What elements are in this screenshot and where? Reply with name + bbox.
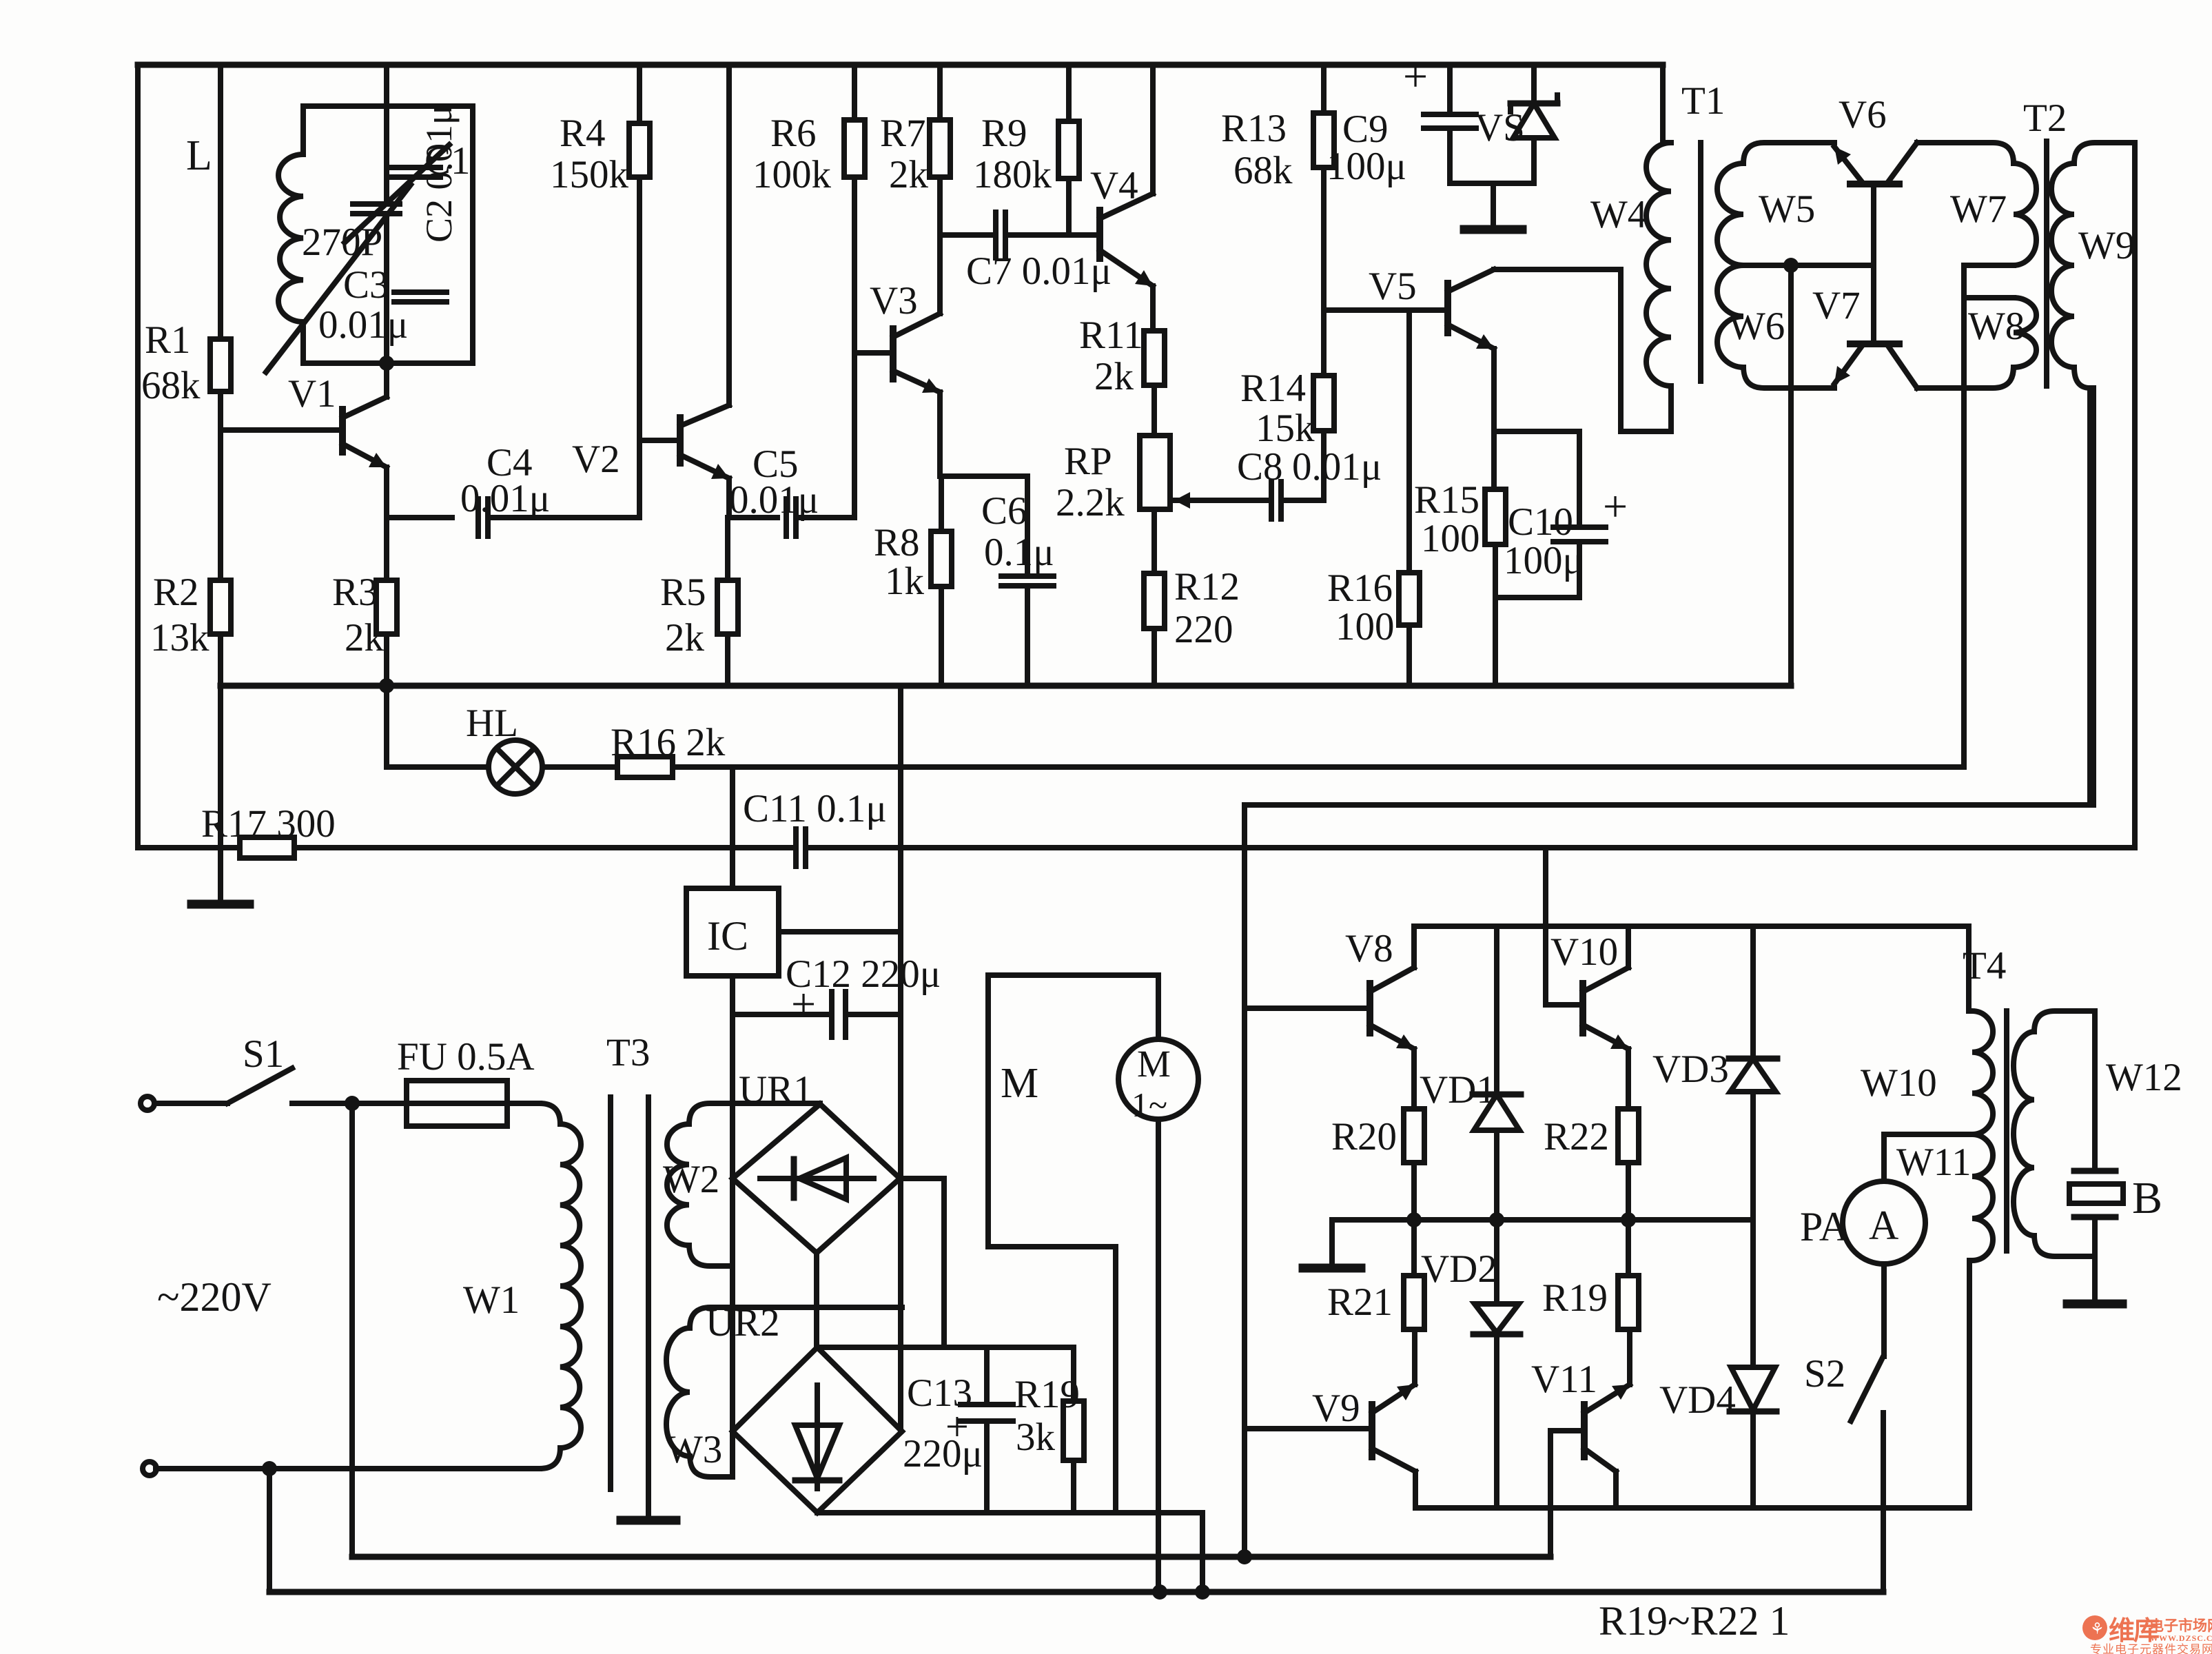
svg-text:V7: V7 [1812, 284, 1861, 327]
label R19-R22 note [1599, 1598, 1790, 1644]
svg-text:C8: C8 [1237, 445, 1283, 489]
resistor R1 [141, 318, 231, 407]
wire mid tap drop to bus [1788, 265, 1794, 686]
svg-text:2k: 2k [345, 616, 385, 660]
svg-text:V11: V11 [1531, 1358, 1597, 1401]
svg-text:68k: 68k [141, 364, 201, 407]
wire R16 2k to W7W8 drop [673, 764, 1964, 770]
wire W12 top to B [2092, 1011, 2098, 1171]
wire C10 bottom branch [1495, 542, 1579, 598]
zener diode VS [1475, 65, 1557, 183]
wire HL branch drop [384, 684, 389, 767]
transistor V6 rotated [1834, 93, 1917, 184]
terminal upper mains [141, 1096, 154, 1110]
svg-text:R20: R20 [1331, 1115, 1397, 1158]
svg-text:R14: R14 [1240, 367, 1306, 410]
wire C8 to R14 [1281, 431, 1324, 500]
svg-text:T1: T1 [1681, 79, 1725, 123]
wire R4 column drop [637, 65, 642, 123]
wire V5 base line [1324, 307, 1448, 313]
svg-text:VD2: VD2 [1421, 1247, 1497, 1291]
capacitor C8 [1237, 445, 1382, 519]
svg-text:HL: HL [466, 702, 518, 745]
resistor R12 [1144, 565, 1240, 651]
wire C12 right to UR1 right corner [846, 1012, 901, 1017]
capacitor C4 [460, 441, 550, 536]
capacitor C12 electrolytic [786, 952, 941, 1037]
resistor R16 (2k) lamp series [611, 721, 726, 777]
svg-text:T3: T3 [606, 1031, 650, 1074]
svg-text:⚘: ⚘ [2090, 1620, 2105, 1637]
lamp HL [387, 702, 542, 794]
rectifier UR2 bridge [706, 1301, 902, 1513]
wire V1 collector [384, 363, 389, 397]
wire R4 to V2 base [637, 177, 642, 440]
svg-text:M: M [1137, 1043, 1171, 1085]
wire R17 C11 line [294, 845, 796, 850]
diode VD1 [1420, 926, 1521, 1220]
svg-text:R16: R16 [1327, 566, 1393, 610]
svg-text:C3: C3 [343, 263, 389, 307]
transistor V8 [1345, 926, 1414, 1049]
wire bottom rail A [352, 1549, 1550, 1564]
resistor R19 3k [1014, 1347, 1084, 1513]
resistor R9 [973, 112, 1079, 196]
capacitor C1 [302, 139, 471, 264]
potentiometer RP [1056, 436, 1170, 524]
svg-text:0.01μ: 0.01μ [460, 477, 550, 520]
svg-text:VS: VS [1475, 106, 1525, 150]
capacitor C9 electrolytic [1327, 52, 1476, 188]
wire C10 top branch [1494, 429, 1579, 434]
svg-text:UR2: UR2 [706, 1301, 780, 1345]
core T3 left [606, 1031, 650, 1489]
wire V9 collector down [1413, 1471, 1418, 1508]
svg-text:V5: V5 [1369, 265, 1417, 308]
svg-text:专业电子元器件交易网站: 专业电子元器件交易网站 [2090, 1643, 2212, 1654]
transistor V4 [1090, 164, 1153, 286]
svg-text:150k: 150k [550, 153, 629, 196]
svg-text:+: + [1603, 482, 1628, 531]
wire top bus corner down to W4 [1663, 65, 1671, 143]
svg-text:15k: 15k [1256, 407, 1315, 450]
wire lower terminal tap down [267, 1469, 272, 1592]
ground under B [2067, 1300, 2122, 1304]
winding W3 of T3 [666, 1307, 902, 1477]
ground under C9 VS [1464, 183, 1522, 229]
wire mid rail [1332, 1212, 1753, 1227]
wire B to ground [2092, 1217, 2098, 1300]
svg-text:R17 300: R17 300 [201, 802, 336, 846]
resistor R14 [1240, 367, 1334, 450]
svg-text:1k: 1k [885, 560, 925, 603]
wire R2 to ground [218, 634, 223, 899]
wire C5 line [729, 515, 777, 520]
svg-text:W7: W7 [1950, 187, 2007, 231]
svg-text:220μ: 220μ [903, 1432, 983, 1476]
svg-text:R9: R9 [981, 112, 1027, 155]
wire tank box top [303, 103, 473, 109]
winding W10 of T4 [1861, 1011, 1993, 1134]
svg-text:T2: T2 [2023, 96, 2067, 140]
wire UR2 top rail [817, 1345, 1074, 1350]
winding W11 of T4 [1896, 1134, 1993, 1260]
capacitor C10 electrolytic [1504, 431, 1628, 582]
wire IC bottom to UR1 and W3 [730, 976, 735, 1477]
wire V6 V7 base link [1871, 184, 1876, 344]
transistor V7 rotated [1812, 284, 1917, 388]
svg-text:W2: W2 [663, 1158, 719, 1201]
svg-text:IC: IC [707, 913, 748, 959]
svg-text:0.01μ: 0.01μ [318, 303, 408, 347]
svg-text:~220V: ~220V [157, 1274, 272, 1320]
svg-text:VD3: VD3 [1652, 1048, 1729, 1091]
svg-text:V3: V3 [870, 279, 918, 323]
arrow of variable capacitor C1 [266, 185, 411, 372]
svg-text:C6: C6 [981, 489, 1027, 533]
svg-text:0.01μ: 0.01μ [1292, 445, 1382, 489]
diode VD3 [1652, 926, 1777, 1220]
svg-text:R8: R8 [874, 521, 920, 564]
wire V11 base line [1550, 1431, 1584, 1557]
core T2 [2023, 96, 2067, 386]
wire R2 top [218, 430, 223, 580]
svg-text:V1: V1 [288, 372, 336, 416]
winding W1 of T3 [463, 1124, 581, 1448]
wire R1 to V1 base node [218, 391, 223, 430]
wire M lead down [1156, 1119, 1161, 1592]
wire bottom rail B [269, 1584, 1883, 1600]
wire W4 bottom stub [1668, 386, 1674, 431]
svg-text:电子市场网: 电子市场网 [2149, 1617, 2212, 1634]
wire W9 bottom drop [2087, 388, 2093, 805]
wire R22 to mid rail [1626, 1163, 1631, 1220]
svg-text:W8: W8 [1968, 305, 2025, 348]
wire bus to UR1 right corner vertical [898, 686, 903, 1431]
capacitor C3 [318, 263, 447, 347]
svg-text:VD4: VD4 [1659, 1378, 1736, 1422]
wire M loop left [985, 975, 991, 1247]
wire R9 column drop [1066, 65, 1072, 121]
arrow into RP wiper from C8 [1174, 492, 1269, 509]
svg-text:100μ: 100μ [1327, 145, 1406, 188]
wire M loop bottom [988, 1244, 1116, 1249]
svg-text:R15: R15 [1414, 478, 1479, 522]
winding W4 of T1 [1590, 143, 1671, 386]
wire RP to R12 [1151, 509, 1157, 573]
svg-text:T4: T4 [1963, 944, 2006, 988]
wire C11 line to W9 top drop [806, 845, 2135, 850]
wire V5 collector down [1618, 269, 1624, 431]
wire R15 to bus [1493, 544, 1498, 684]
wire V2 collector to bus [726, 65, 732, 405]
resistor R22 [1544, 1109, 1639, 1163]
winding W2 of T3 [663, 1103, 820, 1266]
svg-text:R21: R21 [1327, 1280, 1393, 1324]
wire R5 to bus [725, 634, 730, 686]
wire R6 to V3 base node [852, 177, 857, 518]
wire C4 line [387, 515, 452, 520]
wire C5 to R6 column [796, 515, 854, 520]
wire V4 base line [1069, 232, 1100, 238]
svg-text:PA: PA [1800, 1204, 1849, 1249]
svg-text:C10: C10 [1508, 500, 1573, 544]
wire R20 to mid rail [1411, 1163, 1417, 1220]
wire to S1 [154, 1101, 227, 1106]
wire V11 collector down [1613, 1471, 1619, 1508]
svg-text:W9: W9 [2078, 224, 2135, 267]
winding W5 of T2 side [1717, 143, 1834, 265]
wire C7 to V4 base node [1005, 232, 1069, 238]
resistor R3 [332, 571, 397, 660]
svg-text:M: M [1001, 1060, 1038, 1107]
switch S1 [227, 1032, 292, 1103]
svg-text:100: 100 [1421, 517, 1480, 560]
resistor R5 [660, 571, 738, 660]
wire R12 to bus [1151, 629, 1157, 684]
capacitor C2 [388, 105, 460, 243]
wire R17 line left end [138, 845, 240, 850]
wire rail corner to W10 [1966, 926, 1972, 1011]
wire V1 base line [221, 427, 342, 433]
wire main emitter ground bus [221, 683, 1791, 689]
winding W8 of T2 [1965, 298, 2036, 388]
svg-text:R11: R11 [1079, 314, 1143, 357]
diode VD4 [1659, 1220, 1776, 1508]
diode VD2 [1421, 1220, 1520, 1508]
wire C9 bottom [1450, 128, 1534, 183]
resistor R15 [1414, 478, 1506, 560]
resistor R8 [874, 521, 952, 603]
transistor V9 [1312, 1329, 1415, 1471]
svg-text:W11: W11 [1896, 1141, 1972, 1184]
wire C12 line [733, 1012, 832, 1017]
wire C7 line [940, 232, 993, 238]
wire R6 column drop [852, 65, 857, 120]
svg-text:220: 220 [1174, 608, 1233, 651]
wire right top rail [1414, 923, 1969, 929]
wire tank box bottom [303, 356, 473, 371]
wire V10 emitter to R22 [1626, 1049, 1631, 1109]
svg-text:R13: R13 [1221, 107, 1287, 150]
capacitor C11 [743, 787, 887, 866]
svg-text:VD1: VD1 [1420, 1068, 1496, 1112]
winding W9 of T2 [2051, 143, 2135, 388]
winding W7 of T2 [1917, 143, 2036, 265]
wire V8 base line [1245, 1005, 1370, 1011]
transistor V2 [572, 405, 729, 481]
svg-text:V6: V6 [1839, 93, 1887, 136]
wire M loop top [988, 972, 1158, 978]
wire W5 W6 mid tap [1743, 258, 1874, 273]
wire V5 collector run [1494, 267, 1621, 272]
wire V3 emitter [937, 392, 943, 476]
wire V9 V11 collector rail [1415, 1505, 1969, 1511]
wire S1 tap down [349, 1103, 355, 1557]
resistor R21 [1327, 1220, 1424, 1329]
wire V3 base line [854, 350, 893, 356]
wire FU to W1 [507, 1103, 560, 1124]
capacitor C7 [966, 212, 1112, 293]
wire W1 bottom [156, 1448, 560, 1476]
wire top supply bus [138, 62, 1663, 68]
svg-text:3k: 3k [1016, 1416, 1056, 1459]
svg-text:2k: 2k [1094, 355, 1134, 398]
wire V2 emitter drop [728, 478, 729, 580]
wire W9 top drop [2132, 143, 2138, 844]
svg-text:R16 2k: R16 2k [611, 721, 726, 764]
core T3 right grounded [646, 1097, 651, 1515]
svg-text:W10: W10 [1861, 1061, 1937, 1105]
wire tank box left upper [300, 106, 306, 154]
svg-text:R19~R22 1: R19~R22 1 [1599, 1598, 1790, 1644]
diode inside UR1 [760, 1158, 874, 1199]
wire feed line to W9 bottom [2091, 388, 2096, 805]
wire UR1 bottom to UR2 top [814, 1253, 819, 1347]
arrow of variable capacitor C2 [345, 145, 449, 243]
motor M [1001, 975, 1198, 1124]
svg-text:C7 0.01μ: C7 0.01μ [966, 249, 1112, 293]
svg-text:S2: S2 [1804, 1352, 1845, 1396]
ic IC box [686, 888, 779, 976]
winding W6 of T2 side [1717, 265, 1827, 388]
wire tank box left lower [300, 322, 306, 363]
diode inside UR2 [795, 1385, 839, 1489]
core T1 [1681, 79, 1725, 381]
svg-text:R6: R6 [770, 112, 817, 155]
wire V10 base drop [1546, 848, 1583, 1005]
transistor V11 [1531, 1329, 1630, 1471]
wire PA to S2 [1881, 1264, 1887, 1356]
resistor R20 [1331, 1109, 1424, 1163]
svg-text:68k: 68k [1233, 149, 1293, 192]
wire R8 C6 top line [940, 473, 1027, 479]
wire V7 collector to W8 [1917, 385, 1965, 391]
wire R7 column drop [937, 65, 943, 120]
svg-text:R12: R12 [1174, 565, 1240, 609]
wire S2 lower lead [1881, 1413, 1886, 1592]
wire R14 top [1321, 310, 1327, 376]
resistor R4 [550, 112, 650, 196]
svg-text:V10: V10 [1550, 930, 1618, 974]
resistor R19 bridge [1542, 1220, 1639, 1329]
svg-text:2k: 2k [889, 153, 929, 196]
svg-text:R4: R4 [560, 112, 606, 155]
wire feed drop 1806 [1242, 805, 1247, 1557]
svg-text:W6: W6 [1728, 305, 1785, 348]
wire R9 to V4 base [1066, 178, 1072, 235]
transistor V5 [1369, 265, 1494, 349]
label mains voltage [157, 1274, 272, 1320]
svg-text:A: A [1869, 1203, 1898, 1248]
wire V4 emitter to R11 [1150, 286, 1156, 331]
svg-text:L: L [186, 132, 212, 179]
svg-text:UR1: UR1 [739, 1068, 813, 1112]
svg-text:+: + [791, 979, 816, 1028]
wire W7 W8 mid link [1964, 265, 2014, 298]
transistor V10 [1550, 926, 1628, 1049]
ground mid rail [1303, 1220, 1361, 1268]
svg-text:180k: 180k [973, 153, 1052, 196]
resistor R2 [150, 571, 231, 660]
svg-text:+: + [1403, 52, 1428, 101]
wire IC right line [779, 929, 901, 935]
svg-text:2k: 2k [665, 616, 705, 660]
wire M loop drop [1113, 1247, 1118, 1513]
svg-text:100: 100 [1335, 605, 1395, 649]
svg-text:V2: V2 [572, 438, 620, 481]
svg-text:W12: W12 [2106, 1056, 2182, 1099]
wire rail up to W11 bottom [1967, 1260, 1972, 1508]
svg-text:W1: W1 [463, 1278, 520, 1322]
ground T3 core [621, 1515, 676, 1520]
wire left border vertical [135, 65, 141, 848]
svg-text:V8: V8 [1345, 927, 1393, 970]
svg-text:0.1μ: 0.1μ [984, 531, 1054, 574]
wire to W4 bottom [1621, 429, 1671, 434]
sounder B [2069, 1171, 2162, 1223]
wire V1 emitter drop [379, 467, 394, 693]
inductor L [186, 132, 303, 322]
wire V2 base line [639, 438, 680, 443]
svg-text:R19: R19 [1014, 1373, 1080, 1416]
wire C6 stubs [1025, 476, 1030, 684]
wire tank box right [470, 106, 475, 363]
svg-text:W5: W5 [1759, 187, 1815, 231]
svg-text:B: B [2132, 1173, 2162, 1223]
switch S2 [1804, 1352, 1883, 1421]
svg-text:C2 0.01μ: C2 0.01μ [418, 105, 460, 243]
svg-text:V9: V9 [1312, 1387, 1360, 1430]
wire R8 stubs [939, 476, 944, 684]
wire R13 column drop [1321, 65, 1327, 113]
wire UR2 bottom rail [817, 1513, 1202, 1592]
wire tank center vertical [384, 65, 389, 363]
wire W7W8 mid drop to HL line [1961, 298, 1967, 767]
svg-text:W3: W3 [666, 1428, 722, 1471]
svg-text:R19: R19 [1542, 1276, 1608, 1320]
ammeter PA [1800, 1181, 1925, 1264]
wire R16 column [1406, 310, 1412, 684]
svg-text:FU 0.5A: FU 0.5A [397, 1035, 535, 1079]
capacitor C13 electrolytic [903, 1347, 1013, 1513]
ground under R2 [192, 899, 249, 904]
wire V5 emitter [1491, 349, 1497, 489]
resistor R11 [1079, 314, 1165, 398]
wire W10 W11 tap [1884, 1134, 1972, 1181]
svg-text:C11 0.1μ: C11 0.1μ [743, 787, 887, 830]
terminal lower mains [143, 1462, 156, 1476]
wire C4 to R4 node [488, 440, 639, 518]
svg-text:V4: V4 [1090, 164, 1138, 207]
svg-text:R22: R22 [1544, 1115, 1609, 1158]
svg-text:W4: W4 [1590, 193, 1647, 236]
rectifier UR1 bridge [733, 1068, 900, 1253]
wire R7 to V3 collector [937, 177, 943, 314]
svg-text:2.2k: 2.2k [1056, 481, 1125, 524]
svg-text:R7: R7 [880, 112, 926, 155]
svg-text:R2: R2 [153, 571, 199, 614]
fuse FU 0.5A [397, 1035, 535, 1126]
wire V4 collector to bus [1150, 65, 1156, 194]
svg-text:S1: S1 [243, 1032, 284, 1076]
capacitor C5 [729, 442, 819, 536]
svg-text:100k: 100k [752, 153, 832, 196]
core T4 [1963, 944, 2007, 1251]
capacitor C6 [981, 489, 1054, 586]
wire UR1 right corner jog [900, 1178, 944, 1347]
wire HL-IC vertical [730, 767, 735, 888]
